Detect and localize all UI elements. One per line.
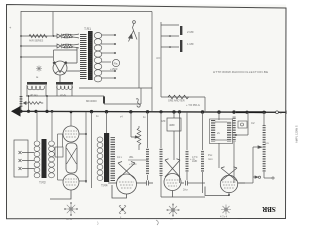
wire T.R3 to bus: [37, 111, 52, 141]
svg-text:41 x: 41 x: [117, 155, 123, 159]
svg-text:Pxx: Pxx: [208, 153, 213, 157]
wire screen feed y97: [161, 97, 205, 111]
svg-text:AVR SERIES: AVR SERIES: [29, 40, 44, 43]
capacitor C4 coupling: [147, 181, 154, 186]
tube V2: [108, 162, 146, 199]
label R8 values: [192, 155, 198, 163]
wire antenna drop x139: [138, 32, 140, 88]
wire vertical x86: [85, 112, 87, 183]
resistor R1 mains series: [29, 34, 47, 37]
lead-in coil bottom: [62, 44, 79, 48]
rectifier tube V5: [53, 47, 80, 82]
svg-text:4 TC: 4 TC: [192, 155, 198, 159]
svg-text:+1500: +1500: [110, 67, 118, 71]
wire drop x53: [52, 12, 54, 37]
svg-text:4 Hy: 4 Hy: [60, 93, 67, 97]
tube base diagram small: [36, 66, 42, 72]
node tap terminals: [114, 34, 116, 79]
jack J1: [136, 99, 140, 107]
wire mains line 1: [21, 35, 57, 37]
svg-text:LMF: LMF: [192, 159, 198, 163]
transformer T.R1 primary winding: [80, 33, 87, 80]
node rail-L2: [20, 45, 22, 47]
svg-text:MF: MF: [162, 119, 166, 123]
wire T.R5 to bus and V4: [218, 112, 220, 168]
transformer T.R4 primary winding: [97, 137, 103, 181]
transformer T.R5 IF: [210, 119, 233, 144]
svg-text:40 Hy: 40 Hy: [30, 93, 38, 97]
wire main ground bus: [12, 111, 286, 112]
wire V1 anode to bus: [70, 111, 73, 126]
svg-text:+ T.R PRLG: + T.R PRLG: [186, 103, 200, 107]
wire filter network: [26, 85, 104, 111]
tube base diagram V2: [119, 205, 126, 214]
label SBR logo: [261, 205, 276, 213]
wire bus dark segment: [236, 111, 266, 113]
svg-text:C2: C2: [251, 121, 255, 125]
svg-text:4 7x 4: 4 7x 4: [220, 215, 228, 219]
node bus end terminal: [276, 111, 287, 116]
resistor R3 bleeder: [24, 102, 44, 105]
wire y160 stub: [128, 159, 148, 161]
svg-text:JBL: JBL: [129, 155, 134, 159]
svg-text:T.R3: T.R3: [39, 181, 46, 185]
tube base diagram V3: [167, 204, 179, 216]
svg-text:HTTP.WWW.RADIOCOLLECTION.BE: HTTP.WWW.RADIOCOLLECTION.BE: [213, 70, 268, 74]
node cap bank joints: [169, 35, 171, 48]
svg-text:4 F: 4 F: [156, 56, 161, 60]
capacitor C3 MF/4000: [103, 96, 105, 104]
capacitor C2 1MF: [180, 40, 182, 52]
terminal strip X1: [14, 140, 34, 177]
label middle values: [117, 155, 137, 166]
fuse F2: [57, 44, 61, 48]
resistor R10 volume: [263, 112, 275, 179]
svg-text:T.R1: T.R1: [84, 27, 91, 31]
ground bus arrowhead: [11, 106, 21, 117]
resistor R6: [160, 112, 163, 197]
node Ra tap: [110, 59, 120, 71]
wire vertical x179: [179, 112, 181, 183]
transformer T.R1 secondary winding: [94, 33, 102, 82]
transformer T.R3 secondary winding: [49, 141, 55, 178]
capacitor bank feed wire: [161, 22, 179, 97]
wire mains line 2: [21, 45, 57, 47]
tube V4: [205, 167, 245, 196]
svg-text:+: +: [280, 112, 282, 116]
capacitor C5 4MF box: [167, 112, 181, 160]
page border frame: [7, 5, 287, 219]
node filter joints: [28, 95, 48, 97]
wire vertical x91: [91, 112, 93, 188]
label V4 values: [208, 153, 213, 161]
lead-in coil top: [62, 34, 79, 38]
resistor R7: [186, 112, 189, 180]
wire supply box bottom: [79, 88, 152, 104]
wire left supply rail: [20, 11, 22, 111]
svg-text:SRE ARDTER: SRE ARDTER: [168, 99, 185, 103]
svg-text:/xxx: /xxx: [208, 157, 213, 161]
node A: [53, 35, 55, 37]
capacitor C7 box: [238, 121, 247, 128]
wire secondary taps: [101, 35, 115, 78]
tube base diagram V1: [64, 202, 77, 215]
svg-text:T.R4: T.R4: [101, 184, 108, 188]
svg-text:Ra: Ra: [114, 62, 118, 66]
node rail-L1: [20, 35, 22, 37]
svg-text:4MF: 4MF: [169, 123, 175, 127]
antenna switch S1: [129, 21, 138, 42]
transformer T.R3 primary winding: [34, 141, 40, 178]
resistor R8: [201, 112, 204, 193]
svg-text:AMPL 125W S: AMPL 125W S: [295, 125, 299, 143]
wire T.R4 to bus: [106, 112, 108, 133]
svg-text:SBR: SBR: [261, 205, 276, 213]
wire aux right of T.R3: [55, 134, 63, 180]
tube base diagram V4: [221, 205, 231, 215]
transformer T.R3 core: [42, 139, 47, 178]
potentiometer P1: [131, 112, 141, 150]
node V4 cathode: [228, 194, 230, 196]
capacitor C6 coupling: [186, 181, 206, 186]
svg-text:2 MF: 2 MF: [187, 30, 194, 34]
capacitor C1 2MF: [180, 26, 182, 35]
wire top rail: [21, 11, 152, 13]
svg-text:2/xx: 2/xx: [183, 188, 188, 192]
wire heater line y57: [20, 56, 53, 58]
transformer T.R1 core: [88, 31, 93, 80]
tube V1 rectifier capsule: [50, 126, 86, 199]
choke L2 4Hy: [56, 82, 73, 97]
resistor R4 screen: [168, 95, 189, 99]
svg-text:4x 4x: 4x 4x: [66, 217, 73, 221]
tube V3: [161, 159, 205, 197]
svg-text:1 MF: 1 MF: [187, 42, 194, 46]
wire right rail x152: [151, 12, 153, 112]
choke L1 40Hy: [27, 82, 47, 97]
transformer T.R4 core: [104, 133, 109, 182]
resistor R2 on left rail: [20, 95, 23, 107]
scan artifact marks: [97, 220, 158, 225]
fuse F1: [57, 34, 61, 38]
wire feedback with wiper arrows: [236, 112, 262, 183]
resistor R9: [233, 116, 237, 183]
svg-text:MF/4000: MF/4000: [86, 99, 97, 103]
label bus marks: [96, 115, 146, 119]
wire rectifier anode bracket: [54, 50, 78, 61]
transformer T.R4 secondary winding: [111, 137, 116, 181]
resistor R5: [146, 112, 149, 180]
node bus junctions: [19, 110, 265, 114]
